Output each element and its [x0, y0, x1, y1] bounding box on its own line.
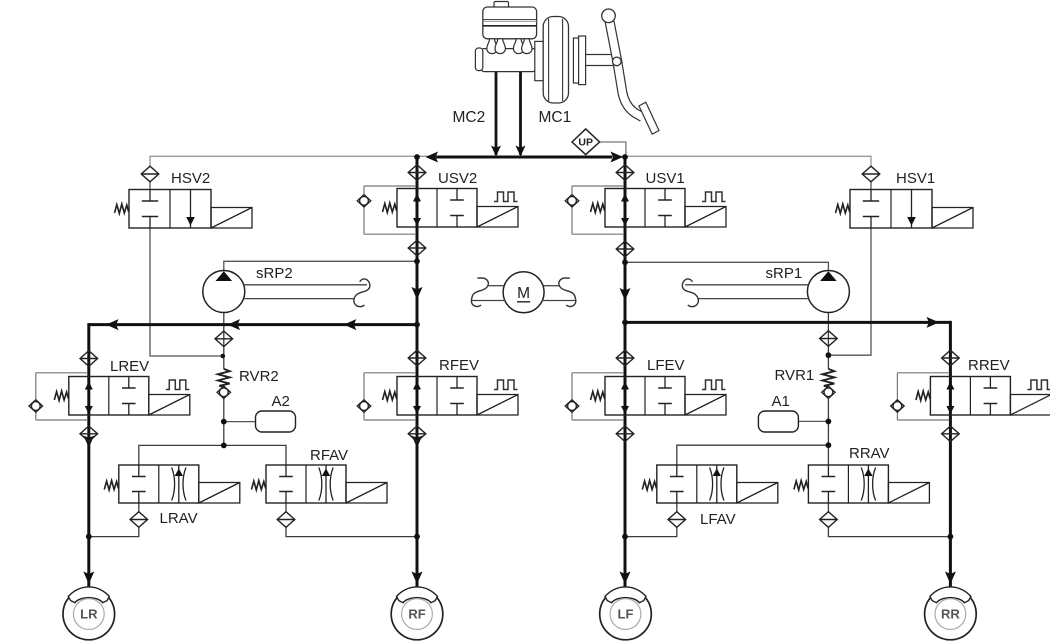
valve LFAV body [657, 465, 737, 503]
svg-text:M: M [517, 285, 530, 302]
LREV bypass check valve [29, 373, 88, 420]
node MC1 manifold junction [622, 154, 628, 160]
check valve above USV1 [616, 165, 634, 181]
wire front-right main line USV2 to RF wheel [416, 157, 419, 587]
check valve above HSV1 [862, 166, 880, 182]
brake fluid reservoir [483, 7, 537, 39]
svg-text:LFAV: LFAV [700, 511, 736, 528]
motor left shaft [471, 278, 505, 307]
pump sRP2 drive shaft [244, 279, 370, 307]
valve RRAV solenoid [888, 483, 929, 504]
wheel RF [391, 587, 443, 640]
node left distribution junction [414, 322, 420, 328]
valve RRAV body [808, 465, 888, 503]
valve LFAV spring [642, 481, 656, 491]
relief valve RVR1 spring [823, 369, 835, 387]
valve RREV PWM signal [1027, 380, 1050, 390]
pump sRP1 drive shaft [682, 279, 808, 307]
check valve below RFEV [408, 426, 426, 442]
wire LRAV inlet check stub [138, 503, 140, 513]
pump sRP2 [203, 271, 245, 313]
check valve below RREV [942, 426, 960, 442]
check valve above USV2 [408, 165, 426, 181]
svg-text:sRP2: sRP2 [256, 265, 293, 282]
pushrod [586, 55, 617, 66]
valve HSV2 body [129, 190, 211, 229]
svg-text:RREV: RREV [968, 357, 1010, 374]
valve RREV solenoid [1010, 395, 1050, 416]
svg-text:A1: A1 [772, 393, 790, 410]
svg-text:RVR1: RVR1 [775, 367, 815, 384]
brake pedal arm [609, 16, 643, 117]
svg-text:LF: LF [618, 607, 634, 622]
valve LREV body [69, 377, 149, 416]
brake pedal pad [639, 102, 659, 134]
wire sRP1 suction line [827, 313, 829, 369]
LFEV bypass check valve [565, 373, 624, 420]
valve RFEV solenoid [477, 395, 518, 416]
motor M [503, 272, 544, 313]
pedal arm top pivot [602, 9, 616, 23]
check valve above RREV [942, 350, 960, 366]
wire RRAV drain to RR line [828, 526, 949, 536]
node MC2 manifold junction [414, 154, 420, 160]
wire HSV2 inlet stub [149, 182, 151, 190]
wire accumulator A2 branch [224, 421, 256, 423]
valve USV2 spring [383, 203, 397, 213]
svg-text:LFEV: LFEV [647, 357, 685, 374]
wire feed branch to LRAV and RFAV [139, 445, 286, 465]
relief valve RVR2 ball check [217, 386, 231, 398]
valve HSV1 solenoid [932, 208, 973, 229]
svg-text:RR: RR [941, 607, 960, 622]
valve USV1 spring [591, 203, 605, 213]
node RF drain junction [414, 534, 420, 540]
reservoir cap [494, 2, 509, 9]
USV2 bypass check valve [357, 186, 416, 234]
valve RFEV body [397, 377, 477, 416]
wire sRP2 suction line [223, 313, 225, 369]
check valve sRP1 suction [820, 331, 838, 347]
relief valve RVR1 ball check [822, 386, 836, 398]
valve HSV2 solenoid [211, 208, 252, 229]
node LF drain junction [622, 534, 628, 540]
wire sRP1 outlet to USV1 node [627, 262, 828, 271]
valve HSV2 spring [115, 204, 129, 214]
svg-text:HSV1: HSV1 [896, 170, 935, 187]
check valve below USV1 [616, 241, 634, 257]
wire MC2 pressure pipe [495, 72, 498, 156]
wire manifold pressurized segment [436, 156, 612, 159]
check valve sRP2 suction [215, 331, 233, 347]
valve RREV spring [916, 391, 930, 401]
valve LRAV spring [104, 481, 118, 491]
check valve above LREV [80, 351, 98, 367]
svg-text:RVR2: RVR2 [239, 368, 279, 385]
wire RVR2 to accumulator junction [223, 398, 225, 445]
wire LFAV inlet check stub [676, 503, 678, 513]
check valve below LFAV [668, 512, 686, 528]
valve RFAV solenoid [346, 483, 387, 504]
wire feed branch to LFAV [677, 445, 827, 465]
node A2 junction [221, 419, 227, 425]
svg-text:MC1: MC1 [539, 109, 572, 126]
valve LFEV body [605, 377, 685, 416]
node right distribution junction [622, 320, 628, 326]
valve RREV body [930, 377, 1010, 416]
wire HSV2 outlet run to RVR2 node [150, 228, 223, 357]
valve LFEV solenoid [685, 395, 726, 416]
node A1 junction [826, 419, 832, 425]
node AV feed junction right [826, 442, 832, 448]
valve USV2 body [397, 189, 477, 228]
pressure sensor UP [572, 129, 600, 155]
wire accumulator A1 branch [798, 420, 828, 422]
node sRP2 outlet junction [414, 258, 420, 264]
booster rear plates [573, 36, 585, 85]
valve RRAV spring [794, 481, 808, 491]
wheel LF [600, 587, 652, 640]
wire MC1 pressure pipe [519, 72, 522, 156]
check valve below LFEV [616, 426, 634, 442]
pedal clevis pivot [613, 57, 622, 66]
valve LRAV body [119, 465, 199, 503]
valve LREV solenoid [149, 395, 190, 416]
wire sRP2 outlet to USV2 node [224, 261, 415, 271]
wheel RR [925, 587, 977, 640]
reservoir feed ports [487, 39, 532, 54]
wire secondary distribution line to LREV [89, 323, 417, 326]
relief valve RVR2 spring [218, 369, 230, 387]
check valve below USV2 [408, 240, 426, 256]
valve LFEV PWM signal [702, 380, 726, 390]
valve HSV1 spring [836, 204, 850, 214]
valve RFEV spring [383, 391, 397, 401]
valve USV2 PWM signal [494, 192, 518, 202]
wire HSV1 outlet run to RVR1 node [829, 228, 871, 356]
valve USV1 body [605, 189, 685, 228]
valve USV2 solenoid [477, 207, 518, 228]
svg-text:MC2: MC2 [453, 109, 486, 126]
node HSV2 RVR2 junction [221, 354, 226, 359]
RREV bypass check valve [891, 373, 950, 420]
svg-text:LRAV: LRAV [160, 510, 198, 527]
USV1 bypass check valve [565, 186, 624, 234]
svg-text:sRP1: sRP1 [766, 265, 803, 282]
check valve below LRAV [130, 512, 148, 528]
svg-text:RFAV: RFAV [310, 447, 348, 464]
node RR drain junction [948, 534, 954, 540]
wire RRAV inlet check stub [827, 503, 829, 513]
valve LFAV solenoid [737, 483, 778, 504]
wire top manifold from HSV2 to HSV1 [150, 156, 871, 166]
master cylinder body [481, 49, 536, 72]
wire LRAV drain to LR line [90, 526, 139, 536]
node AV feed junction left [221, 443, 227, 449]
wire UP sensor branch [600, 142, 626, 155]
node HSV1 RVR1 junction [826, 352, 832, 358]
check valve above RFEV [408, 350, 426, 366]
wire LFAV drain to LF line [627, 526, 677, 536]
wheel LR [63, 587, 115, 640]
master cylinder end cap [475, 48, 482, 71]
valve USV1 solenoid [685, 207, 726, 228]
check valve below LREV [80, 426, 98, 442]
wire RVR1 to RRAV inlet [827, 398, 829, 465]
svg-text:USV1: USV1 [646, 170, 685, 187]
svg-text:USV2: USV2 [438, 170, 477, 187]
svg-text:UP: UP [578, 137, 593, 149]
node LR drain junction [86, 534, 92, 540]
wire HSV1 inlet stub [870, 182, 872, 190]
svg-text:LREV: LREV [110, 358, 149, 375]
booster flange [535, 41, 544, 80]
valve LRAV solenoid [199, 483, 240, 504]
wire primary distribution line to RREV [625, 321, 950, 324]
accumulator A1 [758, 411, 798, 432]
node sRP1 outlet junction [622, 259, 628, 265]
check valve below RFAV [277, 512, 295, 528]
valve USV1 PWM signal [702, 192, 726, 202]
wire front-left main line USV1 to LF wheel [624, 157, 627, 587]
svg-text:RRAV: RRAV [849, 445, 890, 462]
svg-text:RF: RF [408, 607, 425, 622]
pump sRP1 [807, 271, 849, 313]
svg-text:RFEV: RFEV [439, 357, 479, 374]
valve LFEV spring [591, 391, 605, 401]
check valve above HSV2 [141, 166, 159, 182]
svg-text:LR: LR [80, 607, 98, 622]
RFEV bypass check valve [357, 373, 416, 420]
valve LREV spring [54, 391, 68, 401]
svg-text:HSV2: HSV2 [171, 170, 210, 187]
check valve below RRAV [820, 512, 838, 528]
wire RFAV inlet check stub [285, 503, 287, 513]
valve RFEV PWM signal [494, 380, 518, 390]
vacuum booster [543, 17, 568, 104]
wire RFAV drain to RF line [286, 526, 416, 536]
valve RFAV body [266, 465, 346, 503]
accumulator A2 [256, 411, 296, 432]
valve LREV PWM signal [166, 380, 190, 390]
svg-text:A2: A2 [272, 393, 290, 410]
check valve above LFEV [616, 350, 634, 366]
valve HSV1 body [850, 190, 932, 229]
valve RFAV spring [252, 481, 266, 491]
motor right shaft [542, 278, 576, 307]
